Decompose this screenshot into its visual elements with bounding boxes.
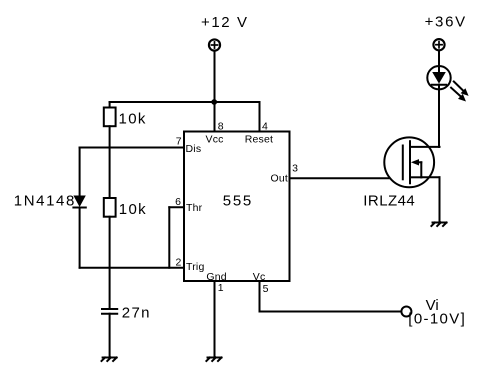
power +36V supply symbol: [433, 39, 444, 50]
LED emission arrows: [451, 82, 469, 102]
svg-text:8: 8: [218, 121, 224, 133]
svg-text:Reset: Reset: [245, 133, 273, 145]
diode D1 1N4148: [73, 196, 85, 268]
wire +12V stem down to Vcc pin 8: [214, 52, 216, 132]
op-amp / IC U1 555 box: [184, 132, 290, 282]
svg-text:Dis: Dis: [186, 143, 202, 155]
svg-text:1N4148: 1N4148: [14, 193, 76, 210]
svg-text:Vcc: Vcc: [206, 133, 224, 145]
svg-text:Thr: Thr: [186, 202, 203, 214]
power +12V supply symbol: [209, 39, 220, 50]
svg-text:7: 7: [176, 136, 182, 148]
capacitor C1 27n: [102, 309, 117, 358]
svg-text:27n: 27n: [122, 304, 151, 321]
svg-text:IRLZ44: IRLZ44: [363, 193, 415, 210]
svg-text:+12 V: +12 V: [201, 14, 249, 31]
pin 7 label Dis: [176, 136, 201, 156]
wire Reset pin 4 drop: [259, 102, 261, 132]
resistor R1 10k: [104, 102, 116, 198]
svg-text:2: 2: [176, 257, 182, 269]
svg-text:3: 3: [292, 163, 298, 175]
terminal Vi input: [401, 307, 411, 317]
transistor Q1 IRLZ44 MOSFET: [384, 137, 439, 187]
ground (below capacitor): [102, 358, 117, 362]
pin 4 label Reset: [245, 121, 273, 146]
svg-text:Trig: Trig: [186, 261, 205, 273]
pin 3 label Out: [270, 163, 298, 185]
wire MOSFET source to ground: [439, 177, 441, 222]
ground (below 555 Gnd): [206, 358, 221, 362]
pin 1 label Gnd: [206, 271, 226, 294]
svg-text:[0-10V]: [0-10V]: [408, 310, 466, 327]
svg-text:6: 6: [175, 196, 181, 208]
svg-text:4: 4: [262, 121, 268, 133]
pin 2 label Trig: [176, 257, 205, 273]
wire top rail from R1 to Reset branch: [110, 101, 260, 103]
svg-text:10k: 10k: [119, 110, 147, 127]
wire +36V stem to LED: [438, 51, 440, 72]
wire Vc pin 5 to input terminal: [260, 281, 402, 312]
svg-text:+36V: +36V: [425, 13, 467, 30]
pin 8 label Vcc: [206, 121, 224, 146]
svg-text:5: 5: [263, 283, 269, 295]
wire Dis pin 7 to left: [80, 147, 184, 149]
wire Trig horizontal: [80, 267, 184, 269]
svg-text:Out: Out: [270, 172, 288, 184]
LED D2: [427, 66, 450, 89]
ground (below MOSFET): [431, 223, 446, 227]
pin 6 label Thr: [175, 196, 203, 214]
pin 5 label Vc: [253, 271, 269, 295]
wire Gnd pin 1 to ground: [214, 281, 216, 358]
svg-text:1: 1: [218, 282, 224, 294]
svg-text:10k: 10k: [119, 201, 147, 218]
wire Out pin 3 to MOSFET gate: [290, 177, 403, 179]
wire Thr pin 6 loop: [169, 207, 184, 268]
svg-text:555: 555: [223, 192, 253, 209]
wire left drop to diode: [79, 148, 81, 197]
node junction dot: [211, 99, 217, 105]
resistor R2 10k: [104, 198, 116, 309]
wire LED cathode down to MOSFET drain: [438, 85, 440, 147]
